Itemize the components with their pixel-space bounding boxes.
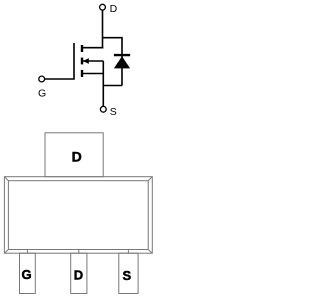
svg-text:S: S [110, 106, 117, 118]
svg-text:D: D [72, 148, 82, 164]
svg-text:D: D [110, 3, 118, 15]
svg-text:G: G [21, 267, 31, 282]
svg-text:D: D [74, 268, 83, 283]
svg-text:G: G [38, 87, 46, 99]
svg-text:S: S [122, 268, 131, 283]
